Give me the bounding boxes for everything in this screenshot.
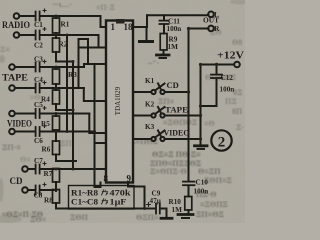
polarity + C7 — [43, 162, 47, 166]
svg-text:R4: R4 — [41, 96, 50, 104]
svg-text:Ξ·: Ξ· — [236, 123, 244, 132]
svg-text:TAPE: TAPE — [2, 73, 28, 83]
wire — [28, 168, 35, 170]
svg-text:Θ≡: Θ≡ — [20, 155, 31, 164]
junction C12 return — [199, 104, 202, 107]
junction supply bus — [199, 63, 202, 66]
svg-text:ΞΠ≡ΘΞ: ΞΠ≡ΘΞ — [196, 210, 224, 219]
junction node row4 — [55, 87, 58, 90]
junction K3 to select bus — [199, 137, 202, 140]
bus wire node row2 down — [66, 35, 68, 132]
svg-text:Ξ≡: Ξ≡ — [0, 45, 10, 54]
wire — [19, 15, 35, 17]
resistor R5 — [53, 116, 60, 130]
svg-text:VIDEO: VIDEO — [164, 128, 190, 138]
svg-text:ΞΠΘ≡ΠΞΞΘΞ: ΞΠΘ≡ΠΞΞΘΞ — [150, 159, 202, 168]
wire — [40, 66, 84, 68]
wire bus B vertical — [78, 39, 80, 88]
polarity + C9 — [146, 202, 151, 207]
wire — [40, 87, 84, 89]
switch K3 — [133, 138, 151, 140]
svg-text:1M: 1M — [168, 43, 179, 51]
wire to pin 3 — [84, 64, 107, 67]
glyph wei (为) line2 — [101, 199, 107, 205]
input terminal VIDEO R — [9, 129, 15, 135]
wire — [40, 34, 99, 36]
wire pin18 to output node — [133, 26, 147, 28]
svg-text:2: 2 — [218, 135, 226, 151]
ground C9 — [161, 217, 172, 220]
wire — [40, 113, 89, 115]
resistor R3 — [53, 69, 60, 84]
L output line — [147, 14, 209, 16]
ground select bus — [195, 144, 208, 147]
svg-text:100n: 100n — [194, 188, 209, 196]
wire — [19, 34, 35, 36]
svg-text:VIDEO: VIDEO — [7, 119, 32, 129]
svg-text:CD: CD — [10, 176, 23, 186]
ground — [140, 40, 153, 43]
bus wire long vertical — [94, 64, 96, 187]
capacitor C2 — [35, 31, 37, 40]
svg-text:R8: R8 — [44, 197, 53, 205]
input terminal CD R — [22, 187, 28, 193]
ground R10 — [178, 213, 193, 216]
svg-text:K1: K1 — [145, 77, 155, 85]
junction row7 bus — [93, 168, 96, 171]
wire to pin 2 — [98, 35, 100, 48]
junction K2 to select bus — [199, 114, 202, 117]
svg-text:ΠΞ: ΠΞ — [225, 97, 237, 106]
wire bus B2 vertical — [87, 39, 89, 64]
wire bias bus vertical — [72, 62, 74, 170]
svg-text:R10: R10 — [169, 198, 182, 206]
polarity + C4 — [43, 81, 47, 85]
svg-text:L: L — [214, 10, 219, 19]
junction R output — [187, 27, 190, 30]
svg-text:1: 1 — [111, 22, 116, 32]
edge smudges — [0, 0, 250, 223]
svg-text:8: 8 — [104, 174, 109, 184]
resistor R8 — [53, 190, 60, 204]
paper background — [0, 0, 245, 223]
input terminal TAPE L — [9, 64, 15, 70]
op-amp U1 TDA1029 body — [106, 21, 133, 183]
wire — [40, 15, 101, 17]
resistor R6 — [53, 141, 60, 155]
pin 8 wire — [95, 183, 101, 188]
svg-text:TDA1029: TDA1029 — [114, 86, 122, 115]
wire to pin 6 — [95, 132, 107, 144]
resistor column connecting wires — [55, 16, 57, 18]
svg-text:K2: K2 — [145, 101, 155, 109]
wire — [15, 66, 35, 68]
resistor R9 — [160, 34, 167, 51]
capacitor C6 — [35, 127, 37, 136]
glyph wei (为) line1 — [101, 190, 107, 196]
input terminal VIDEO L — [9, 111, 15, 117]
capacitor C3 — [35, 63, 37, 72]
polarity + C2 — [43, 27, 47, 31]
svg-text:1M: 1M — [172, 206, 183, 214]
wire — [15, 113, 35, 115]
polarity + C3 — [43, 60, 47, 64]
junction node row8 — [55, 189, 58, 192]
faint bleed-through text patches — [0, 0, 244, 224]
capacitor C10 — [183, 181, 195, 183]
svg-text:100n: 100n — [220, 86, 235, 94]
junction node row5 — [55, 112, 58, 115]
svg-text:R5: R5 — [41, 120, 50, 128]
polarity + C6 — [43, 124, 47, 128]
svg-text:C4: C4 — [34, 76, 43, 84]
svg-text:C2: C2 — [34, 42, 43, 50]
capacitor C7 — [35, 165, 37, 174]
wire pin 2 stub — [79, 47, 107, 49]
junction bias row7 — [72, 168, 75, 171]
ground R9 — [157, 54, 170, 57]
wire — [15, 131, 35, 133]
svg-text:Θ8: Θ8 — [232, 38, 242, 47]
wire — [15, 87, 35, 89]
switch K2 — [133, 115, 151, 117]
note text R1~R8 — [71, 189, 131, 207]
select bus vertical — [200, 65, 202, 145]
polarity + C8 — [43, 183, 47, 187]
wire to pin 1 — [101, 16, 107, 27]
capacitor C12 — [216, 65, 218, 75]
ground pin18 stub — [146, 27, 148, 41]
junction node row7 — [55, 168, 58, 171]
svg-text:≡Π·Ξ: ≡Π·Ξ — [96, 3, 115, 12]
capacitor C5 — [35, 109, 37, 118]
resistor R2 — [53, 38, 60, 52]
svg-text:ΞΘΠ: ΞΘΠ — [70, 213, 89, 222]
svg-text:C12: C12 — [221, 74, 234, 82]
svg-text:K3: K3 — [145, 123, 155, 131]
wire bias tee 3 — [56, 160, 76, 162]
svg-text:≡ΞΘΠΘΞ: ≡ΞΘΠΘΞ — [163, 118, 198, 127]
junction bus A row2 — [66, 34, 69, 37]
junction K1 to R line — [187, 90, 190, 93]
pin 9 wire — [128, 183, 145, 209]
svg-text:1μF: 1μF — [110, 198, 127, 207]
svg-text:CD: CD — [167, 80, 179, 90]
wire bias tee 2 — [56, 109, 73, 111]
svg-text:R: R — [214, 24, 220, 33]
svg-text:R2: R2 — [59, 41, 68, 49]
svg-text:R1~R8: R1~R8 — [71, 189, 98, 198]
svg-text:R6: R6 — [42, 146, 51, 154]
wire — [40, 189, 56, 191]
svg-text:C10: C10 — [196, 179, 209, 187]
capacitor C9 electrolytic — [155, 204, 157, 214]
svg-text:≡Θ: ≡Θ — [204, 119, 215, 128]
svg-text:C1: C1 — [34, 21, 43, 29]
junction node row3 — [55, 66, 58, 69]
svg-text:R3: R3 — [68, 71, 77, 79]
label circle 2 — [211, 130, 231, 150]
svg-text:470k: 470k — [110, 189, 132, 198]
svg-text:8Π: 8Π — [232, 107, 243, 116]
svg-text:ΞΠ·≡: ΞΠ·≡ — [2, 143, 21, 152]
svg-text:+12V: +12V — [217, 51, 245, 62]
svg-text:ΞΘΠ≡Ξ: ΞΘΠ≡Ξ — [204, 176, 232, 185]
capacitor C11 — [163, 15, 165, 20]
svg-text:R1: R1 — [61, 21, 70, 29]
svg-text:~"·: ~"· — [148, 59, 159, 68]
svg-text:Θ≡ΞΠ: Θ≡ΞΠ — [198, 167, 221, 176]
junction bus C row6 — [93, 130, 96, 133]
input terminal TAPE R — [9, 85, 15, 91]
wire — [40, 131, 95, 133]
svg-text:Ξ≡ΘΠΞ·Θ: Ξ≡ΘΠΞ·Θ — [150, 167, 187, 176]
capacitor C1 — [35, 12, 37, 21]
wire — [28, 189, 35, 191]
svg-text:TAPE: TAPE — [165, 105, 188, 115]
wire to pin 7 — [40, 168, 107, 170]
junction node row2 — [55, 34, 58, 37]
wire bus B top jog — [79, 38, 89, 40]
svg-text:C6: C6 — [34, 137, 43, 145]
note box — [69, 186, 135, 210]
IC top notch — [116, 19, 125, 24]
resistor R4 — [53, 90, 60, 104]
junction node row1 — [55, 15, 58, 18]
junction bus A row6 — [66, 130, 69, 133]
R output wire — [189, 28, 209, 30]
svg-text:≡ΞΘΠΞ: ≡ΞΘΠΞ — [200, 200, 228, 209]
junction bias bus 1 — [72, 60, 75, 63]
svg-text:ΞΘ≡: ΞΘ≡ — [30, 215, 47, 223]
input terminal RADIO L — [14, 13, 20, 19]
svg-text:ΞΠ: ΞΠ — [60, 139, 72, 148]
bottom bias wire — [56, 208, 155, 210]
wire to pin 4 — [84, 88, 107, 101]
+12V supply terminal — [234, 62, 240, 68]
junction bottom wire — [143, 207, 146, 210]
svg-text:ΘΞ≡Ξ ΠΘ·Ξ≡: ΘΞ≡Ξ ΠΘ·Ξ≡ — [152, 150, 201, 159]
resistor R10 — [185, 197, 192, 211]
resistor R1 — [53, 18, 60, 33]
junction C12 tap — [215, 63, 218, 66]
svg-text:9: 9 — [127, 174, 132, 184]
capacitor C8 — [35, 186, 37, 195]
svg-text:C7: C7 — [34, 157, 43, 165]
svg-text:RADIO: RADIO — [2, 20, 30, 30]
junction node row6 — [55, 130, 58, 133]
R channel vertical wire — [188, 29, 190, 182]
capacitor C4 — [35, 84, 37, 93]
svg-text:C8: C8 — [34, 192, 43, 200]
junction bias bus 2 — [72, 109, 75, 112]
output terminal R — [208, 26, 214, 32]
svg-text:18: 18 — [124, 22, 134, 32]
svg-text:C1~C8: C1~C8 — [71, 198, 98, 207]
polarity + C5 — [43, 106, 47, 110]
svg-text:100n: 100n — [167, 25, 182, 33]
polarity + C1 — [43, 9, 47, 13]
polarity plus marks — [43, 9, 152, 208]
switch K1 — [133, 91, 151, 93]
input terminal RADIO R — [14, 32, 20, 38]
input terminal CD L — [22, 166, 28, 172]
wire to pin 5 — [89, 114, 106, 134]
wire up to L line — [146, 15, 148, 27]
svg-text:·~ι…·: ·~ι…· — [52, 0, 72, 9]
wire bias tee 1 — [56, 61, 73, 63]
svg-text:C3: C3 — [34, 56, 43, 64]
svg-text:47μ: 47μ — [150, 197, 161, 205]
svg-text:R7: R7 — [44, 170, 53, 178]
output terminal L — [208, 12, 214, 18]
svg-text:0Ξ: 0Ξ — [233, 88, 243, 97]
resistor R7 — [53, 169, 60, 183]
